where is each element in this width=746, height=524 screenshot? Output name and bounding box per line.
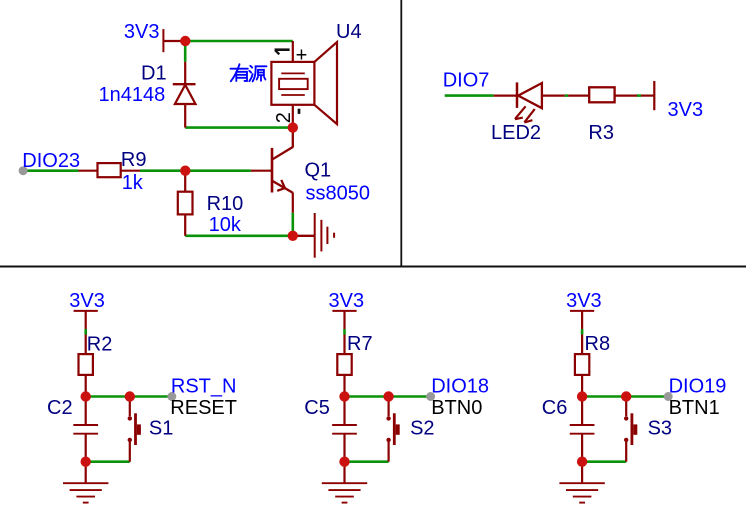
svg-text:3V3: 3V3 [69,290,105,312]
svg-text:C5: C5 [304,397,330,419]
svg-text:R10: R10 [207,193,244,215]
svg-text:Q1: Q1 [305,159,332,181]
svg-text:D1: D1 [141,63,167,85]
svg-text:RESET: RESET [170,397,237,419]
svg-text:BTN1: BTN1 [669,397,720,419]
svg-text:C6: C6 [542,397,568,419]
svg-text:R3: R3 [588,122,614,144]
svg-text:3V3: 3V3 [566,290,602,312]
svg-text:U4: U4 [336,21,362,43]
svg-text:LED2: LED2 [491,122,541,144]
svg-text:ss8050: ss8050 [306,182,371,204]
svg-text:2: 2 [273,112,295,123]
svg-text:S1: S1 [149,418,173,440]
svg-text:3V3: 3V3 [668,99,704,121]
svg-text:R2: R2 [87,334,113,356]
svg-text:+: + [296,45,308,67]
svg-text:3V3: 3V3 [124,21,160,43]
svg-text:DIO18: DIO18 [431,375,489,397]
svg-text:R9: R9 [121,149,147,171]
svg-text:1n4148: 1n4148 [99,84,166,106]
svg-text:C2: C2 [47,397,73,419]
svg-text:BTN0: BTN0 [431,397,482,419]
svg-text:DIO7: DIO7 [443,69,490,91]
svg-text:10k: 10k [209,214,242,236]
svg-text:R7: R7 [347,333,373,355]
svg-text:3V3: 3V3 [329,290,365,312]
svg-text:S3: S3 [648,418,672,440]
svg-text:DIO19: DIO19 [669,375,727,397]
svg-text:R8: R8 [585,333,611,355]
svg-text:S2: S2 [410,418,434,440]
svg-text:RST_N: RST_N [171,375,237,397]
svg-text:1k: 1k [122,172,144,194]
svg-text:DIO23: DIO23 [22,150,80,172]
